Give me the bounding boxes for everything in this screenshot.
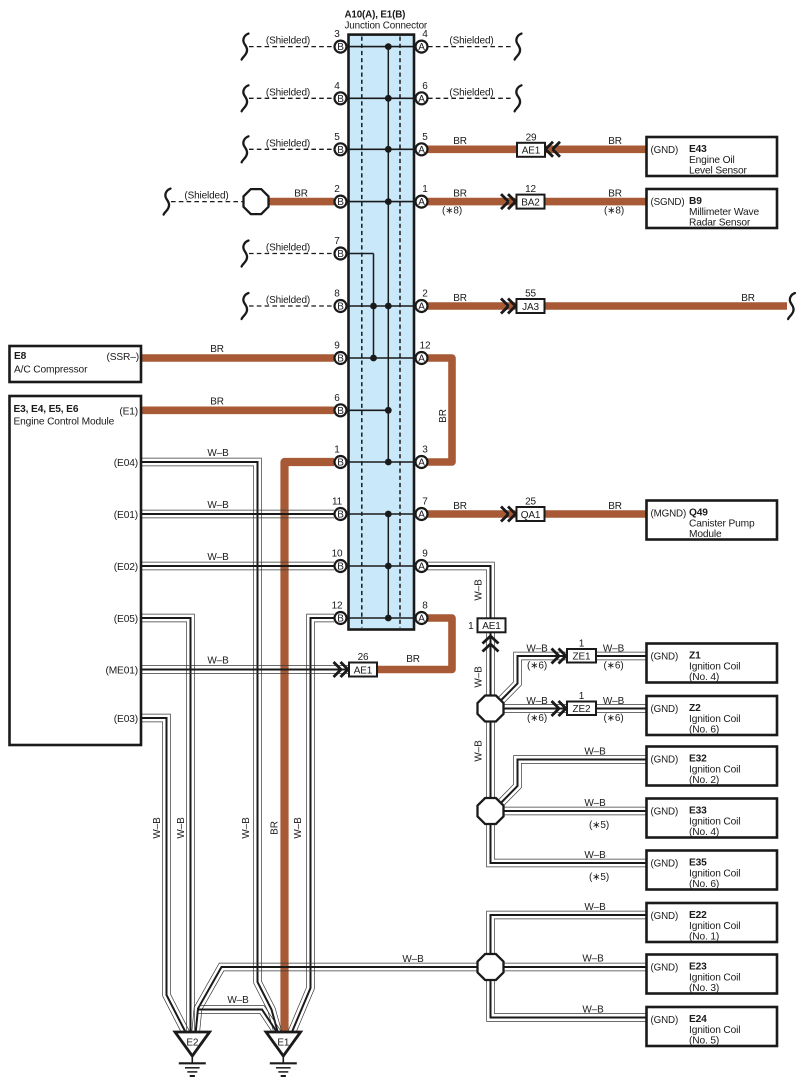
svg-text:E24: E24: [689, 1014, 707, 1025]
shielded wire row 1 left: [249, 46, 334, 48]
svg-text:Engine Oil: Engine Oil: [689, 155, 735, 166]
svg-text:(Shielded): (Shielded): [266, 87, 310, 98]
wire BR: splice to pin B2: [262, 198, 334, 206]
svg-text:W–B: W–B: [526, 696, 548, 707]
svg-text:ZE1: ZE1: [573, 651, 591, 662]
svg-text:12: 12: [332, 601, 343, 612]
svg-text:Canister Pump: Canister Pump: [689, 519, 755, 530]
svg-text:Junction Connector: Junction Connector: [345, 21, 428, 32]
continuation mark long BR right: [788, 293, 795, 319]
svg-text:B: B: [337, 510, 344, 521]
svg-text:(∗6): (∗6): [603, 661, 623, 672]
pin A5 (row 3): [416, 143, 428, 155]
svg-text:(GND): (GND): [651, 145, 679, 156]
svg-text:BR: BR: [406, 654, 420, 665]
pin A2 (row 6): [416, 300, 428, 312]
svg-text:29: 29: [526, 132, 537, 143]
svg-text:Ignition Coil: Ignition Coil: [689, 714, 740, 725]
svg-text:W–B: W–B: [582, 1005, 604, 1016]
svg-text:(E1): (E1): [119, 406, 138, 417]
svg-text:BR: BR: [210, 397, 224, 408]
svg-text:(E01): (E01): [114, 510, 138, 521]
svg-text:A: A: [418, 302, 425, 313]
wire BR: pin A7 to Q49 via QA1: [427, 510, 647, 518]
svg-text:W–B: W–B: [582, 954, 604, 965]
connector partition dashed line right: [399, 37, 401, 628]
svg-text:(GND): (GND): [651, 1015, 679, 1026]
svg-text:(Shielded): (Shielded): [266, 243, 310, 254]
continuation mark row5 left: [242, 241, 249, 267]
pin B2 (row 4): [335, 196, 347, 208]
svg-text:4: 4: [334, 81, 340, 92]
component E32 Ignition Coil No.2: [647, 747, 778, 786]
svg-text:E3, E4, E5, E6: E3, E4, E5, E6: [14, 404, 79, 415]
svg-text:BR: BR: [270, 821, 281, 835]
component E22 Ignition Coil No.1: [647, 903, 778, 942]
svg-text:E32: E32: [689, 754, 707, 765]
svg-text:JA3: JA3: [522, 302, 539, 313]
svg-text:B: B: [337, 94, 344, 105]
shielded wire row 5 left: [249, 253, 334, 255]
svg-text:2: 2: [334, 184, 340, 195]
svg-text:Engine Control Module: Engine Control Module: [14, 417, 115, 428]
svg-text:A: A: [418, 145, 425, 156]
svg-text:BR: BR: [453, 501, 467, 512]
svg-text:W–B: W–B: [207, 448, 229, 459]
svg-text:11: 11: [332, 497, 343, 508]
svg-text:Ignition Coil: Ignition Coil: [689, 817, 740, 828]
svg-text:E43: E43: [689, 144, 707, 155]
svg-text:E22: E22: [689, 910, 707, 921]
svg-text:(ME01): (ME01): [105, 666, 138, 677]
svg-text:B: B: [337, 42, 344, 53]
wire BR: trunk pin B1 down to ground E1: [285, 462, 335, 1038]
pin B5 (row 3): [335, 143, 347, 155]
wire W-B: splice J1 to ZE2: [502, 711, 568, 713]
svg-text:10: 10: [332, 549, 343, 560]
pin A1 (row 4): [416, 196, 428, 208]
svg-text:(GND): (GND): [651, 963, 679, 974]
wire W-B: pin A9 down to AE1(1): [427, 570, 487, 619]
splice S1 (shielded/BR, row 4): [244, 189, 269, 214]
wire W-B: AE1(1) to splice J1: [486, 632, 488, 697]
svg-text:W–B: W–B: [584, 798, 606, 809]
svg-text:1: 1: [579, 639, 585, 650]
svg-text:W–B: W–B: [207, 552, 229, 563]
pin A9 (row 11): [416, 560, 428, 572]
pin B11 (row 10): [335, 508, 347, 520]
svg-text:3: 3: [422, 445, 428, 456]
svg-text:A: A: [418, 562, 425, 573]
svg-text:(GND): (GND): [651, 911, 679, 922]
svg-text:(No. 1): (No. 1): [689, 932, 719, 943]
connector JA3 pin 55: [517, 299, 545, 313]
svg-text:W–B: W–B: [152, 817, 163, 839]
svg-text:W–B: W–B: [584, 902, 606, 913]
pin B6 (row 8): [335, 404, 347, 416]
continuation mark row2 left: [242, 85, 249, 111]
svg-text:E33: E33: [689, 806, 707, 817]
svg-text:(Shielded): (Shielded): [266, 295, 310, 306]
svg-text:55: 55: [525, 289, 536, 300]
svg-text:(∗8): (∗8): [442, 206, 462, 217]
wire W-B: pin B12 down to ground E1: [288, 614, 334, 1031]
svg-text:BR: BR: [453, 136, 467, 147]
wire W-B: ECM (E05) down to ground E2: [141, 622, 187, 1033]
svg-text:BR: BR: [438, 409, 449, 423]
pin A12 (row 7): [416, 352, 428, 364]
component E3,E4,E5,E6 Engine Control Module: [10, 396, 142, 745]
shielded wire row 2 left: [249, 97, 334, 99]
wire W-B: splice J2 to E32: [503, 763, 647, 806]
wire W-B: ZE2 to Z2: [596, 711, 647, 713]
continuation mark row4 left: [164, 189, 171, 215]
svg-text:6: 6: [422, 81, 428, 92]
wire W-B: ZE1 to Z1: [596, 659, 647, 661]
connector ZE2 pin 1: [567, 702, 596, 716]
svg-text:BR: BR: [294, 188, 308, 199]
pin B10 (row 11): [335, 560, 347, 572]
svg-text:AE1: AE1: [354, 665, 373, 676]
svg-text:A: A: [418, 354, 425, 365]
pin B12 (row 12): [335, 612, 347, 624]
component E23 Ignition Coil No.3: [647, 955, 778, 994]
svg-text:W–B: W–B: [603, 696, 625, 707]
svg-text:(No. 6): (No. 6): [689, 879, 719, 890]
svg-text:6: 6: [334, 393, 340, 404]
component Z1 Ignition Coil No.4: [647, 644, 778, 683]
pin B7 (row 5): [335, 248, 347, 260]
wire W-B: ground bundle to splice J3: [192, 963, 478, 1034]
svg-text:Z1: Z1: [689, 651, 701, 662]
svg-text:A10(A), E1(B): A10(A), E1(B): [345, 9, 406, 20]
wire BR: pin A1 to B9 via BA2: [427, 198, 647, 206]
svg-text:E8: E8: [14, 351, 27, 362]
svg-text:B: B: [337, 197, 344, 208]
wire W-B: ECM (E01) to pin B11: [141, 517, 334, 519]
wire W-B: splice J1 down to splice J2: [486, 720, 488, 800]
pin B1 (row 9): [335, 456, 347, 468]
svg-text:ZE2: ZE2: [573, 704, 591, 715]
svg-text:E1: E1: [277, 1038, 290, 1049]
internal junction dots: [385, 43, 392, 50]
wire BR: pin A2 long to right via JA3: [427, 302, 787, 310]
ground E1: [266, 1032, 301, 1056]
wire W-B: ECM (E02) to pin B10: [141, 569, 334, 571]
svg-text:W–B: W–B: [207, 500, 229, 511]
shielded wire row 2 right: [428, 97, 511, 99]
svg-text:QA1: QA1: [521, 510, 541, 521]
wire W-B: splice J2 down to E35: [487, 823, 647, 867]
wire BR: loop pin A12 to pin A3: [427, 358, 452, 462]
connector QA1 pin 25: [517, 507, 545, 521]
svg-text:8: 8: [334, 289, 340, 300]
component E33 Ignition Coil No.4: [647, 799, 778, 838]
svg-text:(Shielded): (Shielded): [266, 138, 310, 149]
svg-text:(GND): (GND): [651, 652, 679, 663]
svg-text:(∗6): (∗6): [527, 713, 547, 724]
pin B4 (row 2): [335, 92, 347, 104]
component E35 Ignition Coil No.6: [647, 851, 778, 890]
svg-text:Ignition Coil: Ignition Coil: [689, 973, 740, 984]
splice J1 (ignition ground, Z1/Z2): [478, 696, 504, 722]
shielded wire row 4 left to splice: [171, 201, 245, 203]
continuation mark row2 right: [515, 85, 522, 111]
svg-text:AE1: AE1: [482, 621, 501, 632]
svg-text:BR: BR: [453, 293, 467, 304]
svg-text:(GND): (GND): [651, 859, 679, 870]
svg-text:Radar Sensor: Radar Sensor: [689, 218, 751, 229]
svg-text:B: B: [337, 614, 344, 625]
svg-text:AE1: AE1: [522, 146, 541, 157]
wire W-B: splice J2 to E33: [502, 814, 647, 816]
svg-text:7: 7: [334, 236, 340, 247]
svg-text:Module: Module: [689, 529, 722, 540]
svg-text:(E05): (E05): [114, 614, 138, 625]
splice J2 (ignition ground, E32/E33/E35): [478, 798, 504, 824]
junction connector A10(A), E1(B) body: [349, 35, 415, 630]
svg-text:(∗8): (∗8): [604, 206, 624, 217]
component Z2 Ignition Coil No.6: [647, 696, 778, 735]
svg-text:(Shielded): (Shielded): [266, 36, 310, 47]
shielded wire row 1 right: [428, 46, 511, 48]
svg-text:BA2: BA2: [521, 197, 540, 208]
svg-text:Z2: Z2: [689, 703, 701, 714]
svg-text:9: 9: [422, 549, 428, 560]
connector ZE1 pin 1: [567, 649, 596, 663]
svg-text:W–B: W–B: [207, 656, 229, 667]
continuation mark row1 right: [515, 34, 522, 60]
continuation mark row3 left: [242, 136, 249, 162]
svg-text:BR: BR: [210, 344, 224, 355]
svg-text:W–B: W–B: [526, 644, 548, 655]
shielded wire row 3 left: [249, 148, 334, 150]
svg-text:(GND): (GND): [651, 704, 679, 715]
svg-text:W–B: W–B: [227, 995, 249, 1006]
svg-text:A: A: [418, 94, 425, 105]
component E8 A/C Compressor: [10, 346, 142, 382]
svg-text:B: B: [337, 249, 344, 260]
connector AE1 pin 29: [517, 143, 545, 157]
svg-text:(E02): (E02): [114, 562, 138, 573]
pin A3 (row 9): [416, 456, 428, 468]
svg-text:E23: E23: [689, 962, 707, 973]
wire W-B: splice J3 to E23: [502, 970, 647, 972]
continuation mark row1 left: [242, 34, 249, 60]
svg-text:W–B: W–B: [584, 747, 606, 758]
pin B3 (row 1): [335, 41, 347, 53]
svg-text:E2: E2: [186, 1038, 199, 1049]
svg-text:5: 5: [422, 132, 428, 143]
svg-text:(∗6): (∗6): [603, 713, 623, 724]
svg-text:1: 1: [422, 184, 428, 195]
internal bus segment pins 7-9: [373, 254, 375, 359]
svg-text:(Shielded): (Shielded): [449, 87, 493, 98]
svg-text:(∗6): (∗6): [527, 661, 547, 672]
svg-text:BR: BR: [453, 188, 467, 199]
svg-text:3: 3: [334, 29, 340, 40]
wire W-B: splice J3 up to E22: [494, 919, 646, 954]
svg-text:(SSR–): (SSR–): [106, 352, 139, 363]
svg-text:B9: B9: [689, 196, 702, 207]
component E24 Ignition Coil No.5: [647, 1007, 778, 1046]
svg-text:B: B: [337, 406, 344, 417]
pin B9 (row 7): [335, 352, 347, 364]
svg-text:(E03): (E03): [114, 714, 138, 725]
connector AE1 pin 1: [478, 618, 506, 632]
svg-text:W–B: W–B: [176, 817, 187, 839]
svg-text:12: 12: [525, 184, 536, 195]
wire W-B: ECM (E03) down to ground E2: [141, 722, 183, 1036]
wire BR: AE1(26) to pin A8: [376, 618, 453, 670]
ground E2: [175, 1032, 210, 1056]
svg-text:5: 5: [334, 132, 340, 143]
svg-text:9: 9: [334, 341, 340, 352]
svg-text:A: A: [418, 458, 425, 469]
svg-text:A: A: [418, 614, 425, 625]
svg-text:W–B: W–B: [584, 850, 606, 861]
pin A6 (row 2): [416, 92, 428, 104]
svg-text:A: A: [418, 42, 425, 53]
wire W-B: ECM (E04) down to ground E1: [141, 466, 274, 1034]
connector AE1 pin 26: [349, 663, 377, 677]
wire W-B: ground strap E2 to E1: [199, 1013, 275, 1035]
svg-text:E35: E35: [689, 858, 707, 869]
svg-text:(No. 4): (No. 4): [689, 672, 719, 683]
pin A4 (row 1): [416, 41, 428, 53]
svg-text:Level Sensor: Level Sensor: [689, 166, 748, 177]
svg-text:12: 12: [420, 341, 431, 352]
svg-text:26: 26: [358, 652, 369, 663]
svg-text:A/C Compressor: A/C Compressor: [14, 365, 88, 376]
continuation mark row6 left: [242, 293, 249, 319]
connector partition dashed line left: [361, 37, 363, 628]
svg-text:W–B: W–B: [402, 954, 424, 965]
wire W-B: splice J3 down to E24: [487, 979, 647, 1021]
svg-text:W–B: W–B: [474, 666, 485, 688]
svg-text:Ignition Coil: Ignition Coil: [689, 662, 740, 673]
svg-text:25: 25: [525, 497, 536, 508]
svg-text:(SGND): (SGND): [651, 197, 685, 208]
wire BR: E8 (SSR-) to pin B9: [141, 354, 334, 362]
svg-text:(No. 3): (No. 3): [689, 983, 719, 994]
svg-text:Millimeter Wave: Millimeter Wave: [689, 207, 759, 218]
wire BR: ECM (E1) to pin B6: [141, 406, 334, 414]
svg-text:B: B: [337, 458, 344, 469]
svg-text:(No. 5): (No. 5): [689, 1036, 719, 1047]
internal ground bus (center, lower segment rows 10-12): [387, 514, 389, 618]
svg-text:(No. 6): (No. 6): [689, 725, 719, 736]
svg-text:(Shielded): (Shielded): [449, 36, 493, 47]
svg-text:(E04): (E04): [114, 458, 138, 469]
wire W-B: splice J1 to ZE1: [503, 660, 568, 704]
svg-text:(MGND): (MGND): [651, 509, 687, 520]
svg-text:BR: BR: [608, 501, 622, 512]
svg-text:W–B: W–B: [293, 817, 304, 839]
pin A8 (row 12): [416, 612, 428, 624]
component B9 Millimeter Wave Radar Sensor: [647, 189, 778, 228]
splice J3 (ignition ground, E22/E23/E24): [478, 954, 504, 980]
svg-text:(GND): (GND): [651, 755, 679, 766]
pin B8 (row 6): [335, 300, 347, 312]
wire W-B: ECM (ME01) to AE1(26): [141, 672, 350, 674]
svg-text:BR: BR: [741, 293, 755, 304]
svg-text:BR: BR: [608, 136, 622, 147]
svg-text:B: B: [337, 562, 344, 573]
svg-text:(No. 2): (No. 2): [689, 775, 719, 786]
svg-text:A: A: [418, 510, 425, 521]
svg-text:1: 1: [579, 691, 585, 702]
pin A7 (row 10): [416, 508, 428, 520]
svg-text:Ignition Coil: Ignition Coil: [689, 869, 740, 880]
svg-text:B: B: [337, 145, 344, 156]
internal row wires: [349, 46, 415, 48]
svg-text:(Shielded): (Shielded): [184, 191, 228, 202]
svg-text:BR: BR: [608, 188, 622, 199]
svg-text:W–B: W–B: [603, 644, 625, 655]
wire BR: pin A5 to E43 via AE1: [427, 146, 647, 154]
svg-text:8: 8: [422, 601, 428, 612]
svg-text:W–B: W–B: [474, 579, 485, 601]
component E43 Engine Oil Level Sensor: [647, 137, 778, 176]
shielded wire row 6 left: [249, 305, 334, 307]
svg-text:2: 2: [422, 289, 428, 300]
svg-text:Ignition Coil: Ignition Coil: [689, 1025, 740, 1036]
svg-text:1: 1: [334, 445, 340, 456]
connector BA2 pin 12: [517, 195, 545, 209]
component Q49 Canister Pump Module: [647, 501, 778, 540]
svg-text:Q49: Q49: [689, 508, 708, 519]
svg-text:(GND): (GND): [651, 807, 679, 818]
svg-text:(∗5): (∗5): [589, 820, 609, 831]
svg-text:(∗5): (∗5): [589, 872, 609, 883]
svg-text:Ignition Coil: Ignition Coil: [689, 765, 740, 776]
svg-text:W–B: W–B: [241, 817, 252, 839]
svg-text:A: A: [418, 197, 425, 208]
internal ground bus (center, upper segment rows 1-9): [387, 47, 389, 462]
svg-text:B: B: [337, 354, 344, 365]
svg-text:1: 1: [468, 621, 474, 632]
svg-text:B: B: [337, 302, 344, 313]
svg-text:(No. 4): (No. 4): [689, 827, 719, 838]
svg-text:W–B: W–B: [474, 740, 485, 762]
svg-text:Ignition Coil: Ignition Coil: [689, 921, 740, 932]
svg-text:7: 7: [422, 497, 428, 508]
